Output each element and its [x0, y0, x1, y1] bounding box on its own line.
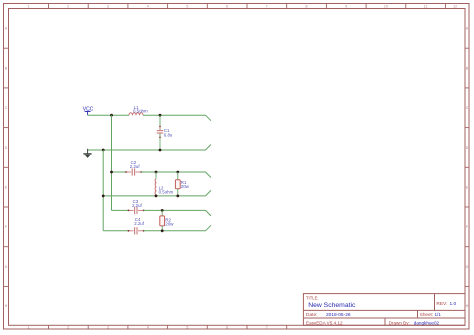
wire top rail left (VCC to L1) — [88, 114, 129, 116]
junction row3 / R1 — [176, 171, 179, 174]
svg-text:2.2uf: 2.2uf — [132, 203, 143, 208]
border row ticks left — [4, 48, 9, 286]
inductor L2 — [155, 172, 174, 196]
wire row3 right (C2 to stub) — [141, 172, 211, 178]
svg-text:G: G — [466, 265, 469, 269]
svg-text:7: 7 — [266, 326, 268, 330]
ground symbol GND — [83, 149, 91, 158]
wire row3 left (rail to C2) — [112, 171, 127, 173]
capacitor C3 — [128, 199, 145, 214]
svg-text:1.0: 1.0 — [450, 301, 457, 307]
wire VCC rail vertical — [111, 115, 113, 210]
svg-text:20w: 20w — [181, 184, 190, 189]
svg-text:TITLE:: TITLE: — [306, 296, 319, 301]
svg-text:H: H — [466, 304, 469, 308]
svg-text:H: H — [5, 304, 8, 308]
wire row6 right (C4 to stub) — [144, 225, 211, 231]
title block outline — [303, 294, 465, 326]
wire row4 (ground rail to stub) — [103, 190, 211, 196]
junction row3 / VCC rail — [110, 171, 113, 174]
svg-text:4: 4 — [147, 5, 149, 9]
svg-text:5: 5 — [186, 5, 188, 9]
svg-text:6: 6 — [226, 5, 228, 9]
wire ground rail vertical — [102, 150, 104, 231]
capacitor C2 — [125, 160, 142, 175]
junction row4 / L2 — [155, 195, 158, 198]
svg-text:11: 11 — [424, 5, 428, 9]
svg-text:EasyEDA V5.4.12: EasyEDA V5.4.12 — [306, 320, 343, 325]
wire row5 right (C3 to stub) — [144, 210, 211, 216]
wire row5 left (VCC rail corner to C3) — [112, 209, 129, 211]
resistor R1 — [175, 172, 189, 196]
junction row6 / R2 — [161, 229, 164, 232]
junction row5 / R2 — [161, 209, 164, 212]
capacitor C1 — [157, 115, 173, 150]
svg-text:2.2uf: 2.2uf — [134, 221, 145, 226]
svg-text:10: 10 — [384, 5, 388, 9]
svg-text:3: 3 — [107, 326, 109, 330]
svg-text:8: 8 — [306, 5, 308, 9]
svg-text:2018-05-26: 2018-05-26 — [326, 312, 351, 318]
wire top rail right (L1 to stub) — [143, 115, 211, 121]
junction top rail / C1 — [159, 114, 162, 117]
svg-text:7: 7 — [266, 5, 268, 9]
border row ticks right — [465, 48, 469, 286]
svg-text:D: D — [466, 146, 469, 150]
resistor R2 — [160, 210, 174, 230]
svg-text:3: 3 — [107, 5, 109, 9]
svg-text:1: 1 — [28, 326, 30, 330]
svg-text:dangkhue02: dangkhue02 — [414, 320, 440, 325]
svg-text:9: 9 — [345, 5, 347, 9]
svg-text:REV:: REV: — [436, 301, 447, 307]
svg-text:2: 2 — [67, 326, 69, 330]
svg-text:6.8u: 6.8u — [164, 133, 173, 138]
wire row6 left (ground rail corner to C4) — [103, 230, 128, 232]
inductor L1 — [129, 105, 148, 115]
svg-text:4: 4 — [147, 326, 149, 330]
border column numbers bottom — [28, 326, 268, 330]
junction ground row / C1 — [159, 149, 162, 152]
junction ground row / ground rail — [102, 149, 105, 152]
junction top rail / VCC rail — [110, 114, 113, 117]
svg-text:5: 5 — [186, 326, 188, 330]
svg-text:Sheet:: Sheet: — [420, 312, 433, 317]
border column ticks bottom — [49, 325, 287, 329]
border row letters left — [5, 27, 8, 308]
svg-text:Drawn By:: Drawn By: — [389, 320, 410, 325]
svg-text:20w: 20w — [165, 222, 174, 227]
svg-text:G: G — [5, 265, 8, 269]
svg-text:C: C — [466, 106, 469, 110]
svg-text:2.2uf: 2.2uf — [130, 164, 141, 169]
junction row3 / L2 — [155, 171, 158, 174]
power flag VCC — [83, 106, 94, 115]
border row letters right — [466, 27, 469, 308]
svg-text:2: 2 — [67, 5, 69, 9]
capacitor C4 — [128, 217, 145, 235]
svg-text:12: 12 — [453, 5, 457, 9]
wire ground row (row2) — [88, 145, 211, 151]
svg-text:0.5ohm: 0.5ohm — [159, 190, 174, 195]
svg-text:New Schematic: New Schematic — [308, 302, 356, 309]
border column numbers top — [28, 5, 458, 9]
svg-text:C: C — [5, 106, 8, 110]
junction row4 / ground rail — [102, 195, 105, 198]
svg-text:Date:: Date: — [306, 312, 317, 318]
svg-text:1/1: 1/1 — [435, 312, 442, 317]
svg-text:0.5ohm: 0.5ohm — [133, 109, 148, 114]
junction row4 / R1 — [176, 195, 179, 198]
svg-text:1: 1 — [28, 5, 30, 9]
border column ticks top — [49, 4, 446, 9]
svg-text:D: D — [5, 146, 8, 150]
svg-text:6: 6 — [226, 326, 228, 330]
